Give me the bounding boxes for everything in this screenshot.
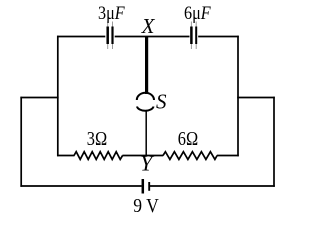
wire bottom-inner left segment	[57, 155, 75, 157]
wire bottom-inner right segment	[217, 155, 239, 157]
capacitor C2 right plate	[195, 27, 197, 45]
switch S lower contact arc	[137, 107, 154, 111]
capacitor C1 right plate	[111, 27, 113, 45]
wire from switch down to node Y	[145, 111, 147, 156]
capacitor C1 right plate thin extension	[112, 22, 114, 50]
svg-text:X: X	[141, 14, 156, 38]
svg-text:6μF: 6μF	[184, 2, 211, 24]
svg-text:6Ω: 6Ω	[178, 127, 198, 150]
capacitor C1 left plate	[106, 27, 109, 45]
resistor R1 3 ohm zigzag	[74, 152, 123, 160]
wire top-right segment	[198, 36, 239, 38]
svg-text:3μF: 3μF	[98, 2, 125, 24]
wire bottom-left of battery	[20, 185, 141, 187]
wire bottom-right of battery	[150, 185, 275, 187]
wire between R1 and node Y and R2	[122, 155, 163, 157]
battery short plate	[148, 182, 150, 191]
capacitor C2 left plate	[190, 27, 193, 45]
inner-right vertical wire	[237, 36, 239, 157]
svg-text:S: S	[156, 89, 167, 113]
svg-text:9 V: 9 V	[133, 195, 159, 217]
wire outer-left vertical	[20, 97, 22, 187]
wire top-left segment	[57, 36, 105, 38]
capacitor C2 right plate thin extension	[195, 22, 197, 50]
capacitor C1 left plate thin extension	[107, 22, 109, 50]
battery long plate	[142, 179, 145, 194]
switch S upper contact arc	[137, 93, 154, 100]
resistor R2 6 ohm zigzag	[163, 152, 217, 160]
wire outer-left connector	[20, 97, 58, 99]
wire outer-right connector	[237, 97, 275, 99]
wire from node X down to switch (thick)	[145, 36, 148, 94]
capacitor C2 left plate thin extension	[190, 22, 192, 50]
wire top-middle segment	[115, 36, 190, 38]
inner-left vertical wire	[57, 36, 59, 157]
wire outer-right vertical	[273, 97, 275, 187]
svg-text:3Ω: 3Ω	[87, 127, 107, 150]
